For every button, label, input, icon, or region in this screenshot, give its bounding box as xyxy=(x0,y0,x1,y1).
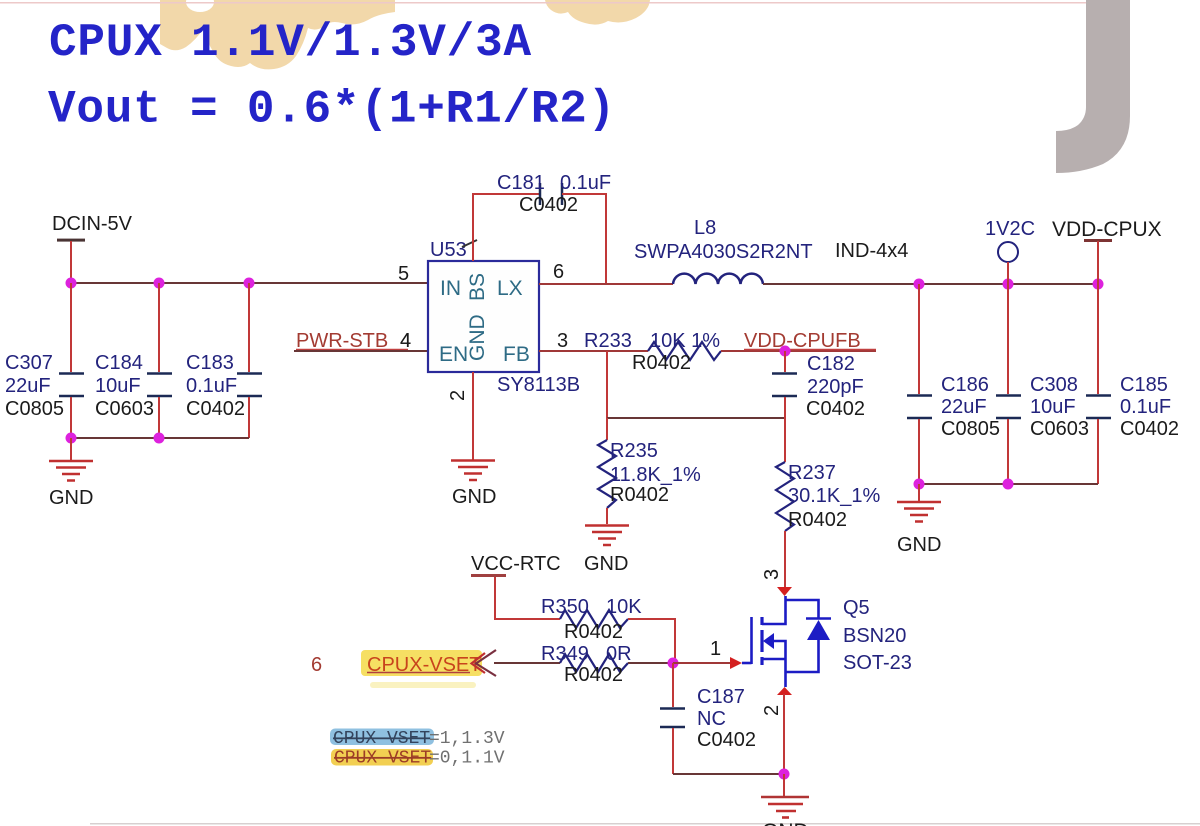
svg-text:Vout = 0.6*(1+R1/R2): Vout = 0.6*(1+R1/R2) xyxy=(48,84,616,136)
decorative faint top hairline xyxy=(0,2,1090,4)
svg-text:SY8113B: SY8113B xyxy=(497,374,580,396)
net port CPUX-VSET xyxy=(361,650,496,688)
wire DCIN-5V top rail xyxy=(71,282,428,284)
annotation line CPUX-VSET=0,1.1V xyxy=(331,749,505,769)
node junction dot right bottom rail at C186 xyxy=(914,479,925,490)
power symbol VDD-CPUX xyxy=(1052,218,1162,284)
capacitor C182 xyxy=(772,351,865,420)
capacitor C187 xyxy=(660,663,756,774)
node junction dot at VDD-CPUX xyxy=(1093,279,1104,290)
svg-text:VDD-CPUFB: VDD-CPUFB xyxy=(744,330,861,352)
svg-text:Q5: Q5 xyxy=(843,597,870,619)
svg-text:11.8K_1%: 11.8K_1% xyxy=(610,464,701,486)
svg-text:0R: 0R xyxy=(606,643,632,665)
svg-text:GND: GND xyxy=(466,314,489,361)
svg-text:R0402: R0402 xyxy=(564,664,623,686)
svg-text:6: 6 xyxy=(553,261,564,283)
svg-text:C186: C186 xyxy=(941,374,989,396)
svg-text:CPUX-VSET: CPUX-VSET xyxy=(333,729,430,749)
svg-text:C0402: C0402 xyxy=(519,194,578,216)
svg-text:NC: NC xyxy=(697,708,726,730)
svg-text:2: 2 xyxy=(447,390,469,401)
svg-text:4: 4 xyxy=(400,330,411,352)
resistor R233 xyxy=(584,330,721,374)
svg-text:R235: R235 xyxy=(610,440,658,462)
svg-text:U53: U53 xyxy=(430,239,467,261)
svg-text:EN: EN xyxy=(439,343,468,366)
svg-text:IN: IN xyxy=(440,277,461,300)
wire FB pin to R233 xyxy=(539,350,648,352)
svg-text:3: 3 xyxy=(557,330,568,352)
svg-text:10K 1%: 10K 1% xyxy=(650,330,720,352)
node junction dot at C184 top xyxy=(154,278,165,289)
op-amp U53 SY8113B regulator body xyxy=(428,239,580,396)
svg-text:R0402: R0402 xyxy=(788,509,847,531)
decorative tan watermark blob left xyxy=(160,0,395,69)
svg-text:C0402: C0402 xyxy=(1120,418,1179,440)
resistor R350 xyxy=(541,596,642,643)
svg-text:=0,1.1V: =0,1.1V xyxy=(429,749,505,769)
svg-text:2: 2 xyxy=(761,705,783,716)
svg-text:R0402: R0402 xyxy=(632,352,691,374)
svg-text:5: 5 xyxy=(398,263,409,285)
net port 1V2C xyxy=(985,218,1035,284)
svg-text:220pF: 220pF xyxy=(807,376,864,398)
annotation line CPUX-VSET=1,1.3V xyxy=(330,729,505,750)
wire R350 to gate node xyxy=(628,619,675,663)
ground symbol left xyxy=(49,438,93,509)
power symbol DCIN-5V xyxy=(52,213,133,283)
svg-text:C181: C181 xyxy=(497,172,545,194)
capacitor C181 xyxy=(497,172,611,216)
svg-text:FB: FB xyxy=(503,343,530,366)
svg-text:R0402: R0402 xyxy=(564,621,623,643)
svg-text:C182: C182 xyxy=(807,353,855,375)
wire C181 right to LX net xyxy=(562,194,606,283)
svg-text:1V2C: 1V2C xyxy=(985,218,1035,240)
decorative gray J watermark top-right xyxy=(1056,0,1130,173)
svg-text:C308: C308 xyxy=(1030,374,1078,396)
svg-text:22uF: 22uF xyxy=(5,375,51,397)
ground symbol below U53 xyxy=(451,461,496,509)
svg-text:R349: R349 xyxy=(541,643,589,665)
svg-text:1: 1 xyxy=(710,638,721,660)
svg-text:SWPA4030S2R2NT: SWPA4030S2R2NT xyxy=(634,241,813,263)
ground symbol below R235 xyxy=(584,526,629,576)
node junction dot at C183 top xyxy=(244,278,255,289)
node junction dot right bottom rail at C308 xyxy=(1003,479,1014,490)
resistor R237 xyxy=(776,418,881,531)
svg-text:L8: L8 xyxy=(694,217,716,239)
svg-text:C0603: C0603 xyxy=(1030,418,1089,440)
svg-text:VCC-RTC: VCC-RTC xyxy=(471,553,561,575)
wire BS pin up xyxy=(473,194,540,261)
svg-text:GND: GND xyxy=(897,534,941,556)
net label PWR-STB xyxy=(296,330,411,352)
svg-text:VDD-CPUX: VDD-CPUX xyxy=(1052,218,1162,241)
svg-text:C0402: C0402 xyxy=(697,729,756,751)
svg-text:C0402: C0402 xyxy=(186,398,245,420)
svg-text:DCIN-5V: DCIN-5V xyxy=(52,213,133,235)
wire inductor to VDD-CPUX rail xyxy=(763,283,1098,285)
svg-text:CPUX-VSET: CPUX-VSET xyxy=(334,749,431,769)
node junction dot gate node xyxy=(668,658,679,669)
svg-text:C0805: C0805 xyxy=(5,398,64,420)
svg-text:0.1uF: 0.1uF xyxy=(1120,396,1171,418)
node junction dot source bottom xyxy=(779,769,790,780)
wire PWR-STB to EN pin xyxy=(294,350,428,352)
wire gate node to Q5 gate xyxy=(673,662,730,664)
svg-text:IND-4x4: IND-4x4 xyxy=(835,240,908,262)
svg-text:GND: GND xyxy=(452,486,496,508)
svg-text:GND: GND xyxy=(762,820,809,826)
inductor L8 xyxy=(634,217,908,284)
svg-text:GND: GND xyxy=(584,553,628,575)
wire right bottom rail xyxy=(919,483,1098,485)
wire mid horizontal connector xyxy=(607,417,785,419)
decorative faint bottom hairline xyxy=(90,823,1200,825)
node junction dot at C307 top xyxy=(66,278,77,289)
capacitor C184 xyxy=(95,283,172,438)
net label VDD-CPUFB xyxy=(744,330,876,352)
transistor Q5 BSN20 xyxy=(730,587,912,695)
capacitor C185 xyxy=(1086,284,1179,484)
svg-text:LX: LX xyxy=(497,277,523,300)
capacitor C183 xyxy=(186,283,262,438)
svg-text:10K: 10K xyxy=(606,596,642,618)
capacitor C186 xyxy=(907,284,1000,484)
ground symbol bottom xyxy=(761,774,809,826)
svg-text:0.1uF: 0.1uF xyxy=(560,172,611,194)
svg-text:6: 6 xyxy=(311,654,322,676)
svg-text:CPUX 1.1V/1.3V/3A: CPUX 1.1V/1.3V/3A xyxy=(49,17,532,69)
capacitor C308 xyxy=(996,284,1089,484)
svg-text:R350: R350 xyxy=(541,596,589,618)
svg-text:BS: BS xyxy=(466,273,489,301)
node junction dot left bottom rail at C184 xyxy=(154,433,165,444)
svg-text:C0805: C0805 xyxy=(941,418,1000,440)
resistor R235 xyxy=(598,418,701,524)
svg-text:C185: C185 xyxy=(1120,374,1168,396)
node junction dot at C186 top xyxy=(914,279,925,290)
svg-text:C307: C307 xyxy=(5,352,53,374)
svg-text:BSN20: BSN20 xyxy=(843,625,906,647)
svg-text:R0402: R0402 xyxy=(610,484,669,506)
power symbol VCC-RTC xyxy=(471,574,560,619)
decorative tan watermark blob middle xyxy=(186,0,214,12)
wire bottom rail C187 to Q5 source xyxy=(673,773,784,775)
wire Q5 source down xyxy=(783,694,785,774)
wire FB branch down xyxy=(606,351,608,418)
capacitor C307 xyxy=(5,283,84,438)
svg-text:GND: GND xyxy=(49,487,93,509)
ground symbol right xyxy=(897,484,941,556)
wire R349 to gate node xyxy=(628,662,673,664)
svg-text:C183: C183 xyxy=(186,352,234,374)
svg-text:=1,1.3V: =1,1.3V xyxy=(429,729,505,749)
node junction dot left bottom rail at C307 xyxy=(66,433,77,444)
wire R233 to VDD-CPUFB xyxy=(721,350,876,352)
wire left bottom rail xyxy=(71,437,249,439)
svg-text:SOT-23: SOT-23 xyxy=(843,652,912,674)
svg-text:30.1K_1%: 30.1K_1% xyxy=(788,485,881,507)
wire GND pin 2 down xyxy=(472,372,474,460)
svg-text:C0402: C0402 xyxy=(806,398,865,420)
wire R237 to Q5 drain xyxy=(784,531,786,589)
node junction dot at 1V2C xyxy=(1003,279,1014,290)
svg-text:22uF: 22uF xyxy=(941,396,987,418)
wire CPUX-VSET to R349 xyxy=(494,662,560,664)
svg-text:10uF: 10uF xyxy=(95,375,141,397)
svg-text:3: 3 xyxy=(761,569,783,580)
svg-text:R233: R233 xyxy=(584,330,632,352)
svg-text:R237: R237 xyxy=(788,462,836,484)
svg-text:C0603: C0603 xyxy=(95,398,154,420)
node junction dot at C182 top xyxy=(780,346,791,357)
svg-text:0.1uF: 0.1uF xyxy=(186,375,237,397)
svg-text:C187: C187 xyxy=(697,686,745,708)
svg-text:10uF: 10uF xyxy=(1030,396,1076,418)
wire LX pin to inductor xyxy=(539,283,673,285)
svg-text:C184: C184 xyxy=(95,352,143,374)
resistor R349 xyxy=(541,643,632,686)
svg-text:PWR-STB: PWR-STB xyxy=(296,330,388,352)
